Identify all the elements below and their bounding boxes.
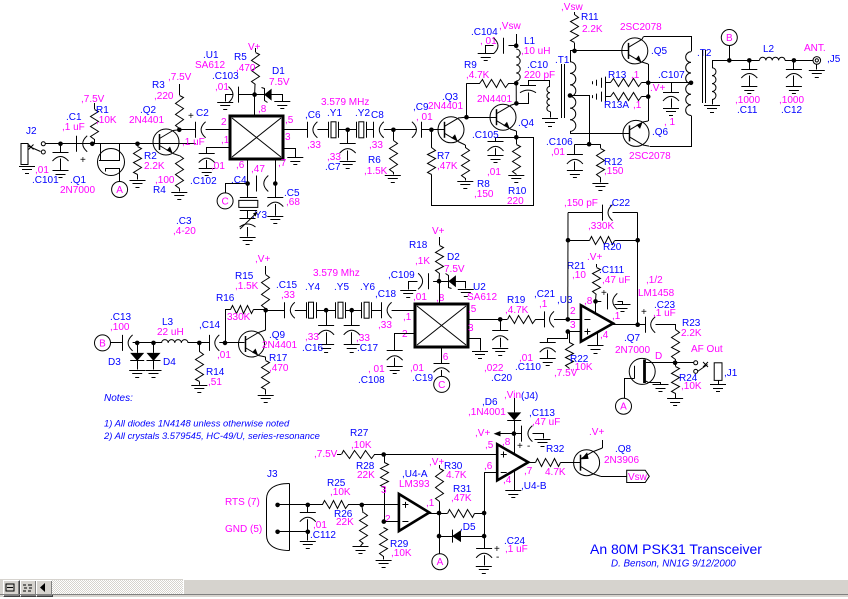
ground (R14) xyxy=(191,385,207,387)
capacitor C24 xyxy=(476,536,492,565)
op-amp U4-B LM393 xyxy=(497,444,528,480)
node dot (7.5V node D1) xyxy=(252,92,257,97)
wire (output rail) xyxy=(729,60,759,62)
wire (V+ rail to T2 tap) xyxy=(648,82,691,84)
svg-text:,1 uF: ,1 uF xyxy=(505,544,528,555)
resistor R26 xyxy=(360,505,368,546)
svg-text:,10K: ,10K xyxy=(391,548,412,559)
svg-text:+: + xyxy=(517,441,523,452)
wire (U4B pin6 leg) xyxy=(484,473,486,536)
svg-text:,1K: ,1K xyxy=(415,256,430,267)
capacitor C16 xyxy=(318,310,334,344)
svg-text:,8: ,8 xyxy=(258,104,267,115)
wire (J2 to C1) xyxy=(45,143,76,145)
svg-text:,7.5V: ,7.5V xyxy=(81,94,105,105)
svg-text:,8: ,8 xyxy=(502,437,511,448)
svg-text:R6: R6 xyxy=(368,155,381,166)
V+ arrow xyxy=(494,431,514,436)
wire (Vsw stub) xyxy=(516,34,518,46)
wire (R19-C21) xyxy=(535,319,544,321)
inductor L3 xyxy=(162,340,188,343)
resistor R31 xyxy=(448,510,485,518)
resistor R21 xyxy=(593,264,601,301)
transformer T2 primary xyxy=(686,52,691,116)
ground (R26) xyxy=(353,546,369,548)
svg-text:C: C xyxy=(438,380,445,391)
svg-text:,C22: ,C22 xyxy=(609,198,631,209)
node dot (D5 left) xyxy=(437,534,442,539)
ground (T1 primary) xyxy=(542,118,558,120)
wire (C9 to Q3) xyxy=(422,129,444,131)
scrollbar track xyxy=(52,580,183,595)
inductor L2 xyxy=(760,57,786,60)
mixer U2 SA612 xyxy=(415,304,468,347)
ground (R4) xyxy=(171,192,187,194)
wire (RTS line) xyxy=(278,504,323,506)
svg-text:,47 uF: ,47 uF xyxy=(532,417,560,428)
svg-text:3: 3 xyxy=(285,132,291,143)
zener diode D2 7.5V xyxy=(439,274,466,289)
svg-text:.C20: .C20 xyxy=(491,373,513,384)
wire (R13 left tie) xyxy=(605,77,607,103)
ground (C20) xyxy=(492,348,508,350)
ground (R2) xyxy=(130,180,146,182)
svg-text:2N7000: 2N7000 xyxy=(60,185,95,196)
svg-text:.Y1: .Y1 xyxy=(327,108,342,119)
svg-text:,V+: ,V+ xyxy=(475,428,490,439)
capacitor C8 xyxy=(373,122,375,138)
capacitor C21 xyxy=(544,311,546,327)
transformer T1 primary xyxy=(547,86,551,117)
svg-text:2N7000: 2N7000 xyxy=(615,345,650,356)
resistor R19 xyxy=(508,316,536,324)
wire (emitter rail mid) xyxy=(648,83,650,121)
svg-text:,33: ,33 xyxy=(305,332,319,343)
ground (C3) xyxy=(240,237,256,239)
wire (feedback loop R7-Q4e) xyxy=(432,138,534,206)
svg-text:An 80M PSK31 Transceiver: An 80M PSK31 Transceiver xyxy=(590,541,762,557)
node dot (R27/R28) xyxy=(381,452,386,457)
transformer T2 core xyxy=(703,50,706,103)
wire (feedback top left) xyxy=(568,212,603,214)
svg-text:,01: ,01 xyxy=(217,350,231,361)
wire (C15 to Y4) xyxy=(295,310,306,312)
svg-text:22K: 22K xyxy=(336,517,354,528)
svg-text:.C4: .C4 xyxy=(231,175,247,186)
svg-text:.C110: .C110 xyxy=(515,362,541,373)
svg-text:,6: ,6 xyxy=(484,461,493,472)
ground (R10) xyxy=(508,175,524,177)
svg-text:D: D xyxy=(655,351,662,362)
wire (U2 pin5 out) xyxy=(467,319,507,321)
svg-text:A: A xyxy=(620,402,627,413)
transformer T1 secondary xyxy=(570,62,576,132)
resistor R13 xyxy=(606,79,649,87)
crystal Y3 xyxy=(239,184,258,219)
capacitor C11 xyxy=(741,60,757,86)
wire (C8-C9) xyxy=(384,129,417,131)
transistor Q2 2N4401 xyxy=(153,129,179,156)
capacitor C108 xyxy=(387,334,416,367)
svg-text:,Vin: ,Vin xyxy=(504,390,521,401)
mixer U1 SA612 xyxy=(230,116,283,159)
svg-text:,C18: ,C18 xyxy=(375,289,397,300)
crystal Y6 xyxy=(361,302,363,318)
pin 7 stub (U1) xyxy=(275,159,277,184)
svg-text:.C101: .C101 xyxy=(32,175,59,186)
wire (U4B out) xyxy=(528,462,535,464)
wire (U3 out) xyxy=(613,324,645,326)
svg-text:.Q6: .Q6 xyxy=(652,127,669,138)
ground (C103) xyxy=(217,102,233,104)
node dot (Q9 coll) xyxy=(263,308,268,313)
svg-text:LM1458: LM1458 xyxy=(638,288,675,299)
svg-text:.C12: .C12 xyxy=(781,105,803,116)
node dot (U4A pin2) xyxy=(382,519,387,524)
resistor R29 xyxy=(380,528,388,560)
pin 4 stub and ground (U3) xyxy=(588,333,604,354)
svg-text:.C17: .C17 xyxy=(357,343,379,354)
ground (C16) xyxy=(318,344,334,346)
ground (R13 sideways) xyxy=(601,78,603,88)
transistor Q6 2SC2078 xyxy=(623,120,649,146)
transformer T2 secondary xyxy=(712,68,716,100)
svg-text:.V+: .V+ xyxy=(589,427,604,438)
svg-text:,J1: ,J1 xyxy=(724,368,738,379)
crystal Y4 xyxy=(306,302,308,318)
svg-text:,1 uF: ,1 uF xyxy=(653,308,676,319)
ground (Q7 source) xyxy=(653,384,669,386)
ground (C17) xyxy=(344,344,360,346)
svg-text:,1: ,1 xyxy=(633,100,642,111)
svg-text:2: 2 xyxy=(221,117,227,128)
resistor R17 xyxy=(262,357,270,395)
node dot (Q2 collector) xyxy=(177,128,182,133)
capacitor C12 xyxy=(786,60,802,86)
svg-text:2SC2078: 2SC2078 xyxy=(629,151,671,162)
svg-text:.C105: .C105 xyxy=(472,130,499,141)
svg-text:,470: ,470 xyxy=(236,63,256,74)
svg-text:4.7K: 4.7K xyxy=(545,467,566,478)
svg-text:ANT.: ANT. xyxy=(804,43,826,54)
wire (L2 to J5) xyxy=(785,60,813,62)
wire (C103 to dot) xyxy=(243,94,255,96)
resistor R23 xyxy=(672,330,680,363)
svg-text:,1/2: ,1/2 xyxy=(646,275,663,286)
node dot (C112 top) xyxy=(306,503,311,508)
svg-text:,7: ,7 xyxy=(524,466,533,477)
node dot (Q9 base) xyxy=(223,341,228,346)
capacitor C15 xyxy=(284,302,286,318)
button: page view xyxy=(3,580,20,597)
svg-text:R4: R4 xyxy=(153,185,166,196)
svg-text:A: A xyxy=(116,185,123,196)
svg-text:2N4401: 2N4401 xyxy=(262,340,297,351)
net tag Vsw xyxy=(627,470,650,483)
svg-text:2: 2 xyxy=(402,329,408,340)
capacitor C4 xyxy=(256,176,258,192)
svg-text:R27: R27 xyxy=(350,428,369,439)
node dot (C112 bottom) xyxy=(306,530,311,535)
svg-text:,1 uF: ,1 uF xyxy=(182,137,205,148)
svg-text:,47: ,47 xyxy=(251,164,265,175)
wire (GND line) xyxy=(278,531,308,533)
svg-text:,6: ,6 xyxy=(236,160,245,171)
svg-text:.Y2: .Y2 xyxy=(355,108,370,119)
ground (C113) xyxy=(535,439,551,441)
svg-text:2.2K: 2.2K xyxy=(582,24,603,35)
resistor R15 xyxy=(262,266,270,310)
transistor Q9 2N4401 xyxy=(239,310,266,357)
capacitor C101 xyxy=(53,144,69,170)
wire (C21 to U3-) xyxy=(554,319,581,321)
wire (Q5 coll to T2) xyxy=(644,37,692,52)
svg-text:,33: ,33 xyxy=(307,140,321,151)
svg-text:D. Benson, NN1G 9/12/2000: D. Benson, NN1G 9/12/2000 xyxy=(611,559,736,570)
ground (R24) xyxy=(667,398,683,400)
svg-text:,10 uH: ,10 uH xyxy=(521,46,550,57)
svg-text:,C14: ,C14 xyxy=(199,320,221,331)
svg-text:,Vsw: ,Vsw xyxy=(499,21,521,32)
svg-text:+: + xyxy=(188,111,194,122)
resistor R30 xyxy=(436,465,444,513)
capacitor C2 xyxy=(195,122,197,138)
svg-text:,150: ,150 xyxy=(604,166,624,177)
svg-text:,51: ,51 xyxy=(208,377,222,388)
ground (C7) xyxy=(340,161,356,163)
capacitor C14 xyxy=(209,335,211,351)
ground (C106) xyxy=(567,170,583,172)
node dot (C17) xyxy=(349,308,354,313)
ground (R17) xyxy=(258,395,274,397)
resistor R14 xyxy=(196,343,204,385)
pin 4 stub and ground (U4B) xyxy=(505,471,521,498)
svg-text:SA612: SA612 xyxy=(467,292,497,303)
wire (U1 pin5 out) xyxy=(283,129,307,131)
capacitor C6 xyxy=(307,122,309,138)
svg-text:2: 2 xyxy=(385,514,391,525)
capacitor C9 xyxy=(421,122,423,138)
wire (Y4-Y5) xyxy=(316,310,336,312)
resistor R18 xyxy=(436,237,444,281)
button: list view xyxy=(20,580,37,597)
capacitor C104 xyxy=(486,38,517,54)
svg-text:,V+: ,V+ xyxy=(255,254,270,265)
resistor R24 xyxy=(672,363,680,398)
svg-text:,4.7K: ,4.7K xyxy=(466,70,490,81)
svg-text:7.5V: 7.5V xyxy=(269,77,290,88)
svg-text:,1: ,1 xyxy=(221,135,230,146)
ground (D3) xyxy=(129,370,145,372)
svg-text:.V+: .V+ xyxy=(587,252,602,263)
ground (C11) xyxy=(741,86,757,88)
node dot (U4A out) xyxy=(437,511,442,516)
svg-text:+: + xyxy=(601,288,607,299)
wire (to Q5 base) xyxy=(575,50,629,52)
svg-text:2SC2078: 2SC2078 xyxy=(620,22,662,33)
svg-text:,01: ,01 xyxy=(215,82,229,93)
node dot (B rail) xyxy=(727,58,732,63)
capacitor C106 xyxy=(567,144,589,170)
svg-text:R13: R13 xyxy=(608,70,627,81)
resistor R32 xyxy=(536,459,581,467)
ground (J3 GND) xyxy=(300,532,316,549)
zener diode D1 7.5V xyxy=(255,88,283,103)
wire (Vin stub) xyxy=(514,398,516,412)
svg-text:,5: ,5 xyxy=(485,440,494,451)
capacitor C109 xyxy=(409,273,440,289)
svg-text:22 uH: 22 uH xyxy=(157,327,184,338)
transistor Q4 2N4401 xyxy=(490,103,517,137)
diode D5 xyxy=(439,530,484,543)
wire (T1 sec top to R11) xyxy=(571,51,575,62)
svg-text:LM393: LM393 xyxy=(399,479,430,490)
svg-text:R5: R5 xyxy=(234,52,247,63)
node dot (R26 top) xyxy=(360,503,365,508)
svg-text:4.7K: 4.7K xyxy=(446,470,467,481)
ground (C104) xyxy=(478,53,494,55)
resistor R28 xyxy=(381,455,389,522)
wire (Q2 coll to C2) xyxy=(179,129,195,131)
svg-text:,1: ,1 xyxy=(426,498,435,509)
wire (feedback left leg) xyxy=(567,213,569,320)
node dot (Vsw/L1) xyxy=(514,43,519,48)
node dot (D4) xyxy=(151,341,156,346)
svg-text:7.5V: 7.5V xyxy=(444,264,465,275)
node dot (T2 tap) xyxy=(689,81,694,86)
node dot (L1 bottom/R9) xyxy=(514,81,519,86)
transistor Q1 2N7000 xyxy=(98,144,125,182)
resistor R7 xyxy=(428,130,436,175)
resistor R12 xyxy=(589,144,604,182)
svg-text:,U3: ,U3 xyxy=(557,295,573,306)
node dot (C12) xyxy=(792,58,797,63)
connector J2 jack xyxy=(21,142,45,165)
svg-text:,10K: ,10K xyxy=(351,440,372,451)
svg-text:J2: J2 xyxy=(26,126,37,137)
svg-text:,1.5K: ,1.5K xyxy=(235,281,259,292)
svg-text:,01: ,01 xyxy=(487,167,501,178)
node dot (AF node) xyxy=(673,361,678,366)
transistor Q7 2N7000 xyxy=(625,358,661,398)
capacitor C22 xyxy=(602,205,604,221)
svg-text:V+: V+ xyxy=(432,226,445,237)
crystal Y5 xyxy=(335,302,337,318)
svg-text:,7.5V: ,7.5V xyxy=(314,449,338,460)
svg-text:,47K: ,47K xyxy=(451,493,472,504)
svg-text:D2: D2 xyxy=(447,252,460,263)
crystal Y1 xyxy=(328,122,330,138)
svg-text:RTS (7): RTS (7) xyxy=(225,497,260,508)
svg-text:.C11: .C11 xyxy=(737,105,758,116)
svg-text:,8: ,8 xyxy=(584,296,593,307)
wire (feedback right leg) xyxy=(637,213,639,325)
svg-text:22K: 22K xyxy=(357,470,375,481)
svg-text:,220: ,220 xyxy=(154,91,174,102)
wire (R9 left leg) xyxy=(466,83,468,117)
ground (C105) xyxy=(488,155,504,157)
node dot (Q4 coll) xyxy=(514,101,519,106)
capacitor C110 xyxy=(540,332,568,359)
wire (T2 sec bottom) xyxy=(712,100,714,105)
transformer T1 core xyxy=(562,64,565,118)
node dot (R13 right) xyxy=(646,81,651,86)
connector J5 ANT xyxy=(813,57,821,70)
svg-text:R3: R3 xyxy=(152,80,165,91)
svg-text:,33: ,33 xyxy=(369,140,383,151)
svg-text:.C108: .C108 xyxy=(358,375,385,386)
svg-text:.C107: .C107 xyxy=(658,70,685,81)
ground (C5) xyxy=(267,216,283,218)
ground (C24) xyxy=(476,566,492,568)
diode D4 xyxy=(147,343,161,370)
svg-text:2N4401: 2N4401 xyxy=(477,94,512,105)
svg-text:.C19: .C19 xyxy=(412,373,434,384)
svg-text:.Q5: .Q5 xyxy=(651,46,668,57)
node dot (V+ node) xyxy=(512,431,517,436)
svg-text:, 01: , 01 xyxy=(416,112,433,123)
pin 8 stub (U3) xyxy=(595,301,597,313)
wire (pin2 stub) xyxy=(384,521,399,523)
svg-text:3.579 Mhz: 3.579 Mhz xyxy=(313,268,360,279)
node dot (R7 top) xyxy=(429,128,434,133)
pin 8 stub (U4B) xyxy=(514,434,516,455)
svg-text:D3: D3 xyxy=(108,357,121,368)
node dot (T1 tap) xyxy=(568,93,573,98)
svg-text:, 01: , 01 xyxy=(368,364,385,375)
node dot (R14) xyxy=(197,341,202,346)
ground (C110) xyxy=(540,358,556,360)
resistor R13A xyxy=(606,93,649,101)
node C (BFO link) xyxy=(434,376,450,392)
wire (Y2-C8) xyxy=(366,129,374,131)
svg-text:SA612: SA612 xyxy=(195,60,225,71)
resistor R20 xyxy=(568,237,638,245)
node dot (U2 7.5V node) xyxy=(437,279,442,284)
wire (Y1-Y2) xyxy=(339,129,357,131)
svg-text:C8: C8 xyxy=(371,110,384,121)
resistor R4 xyxy=(176,156,184,192)
svg-text:,U4-B: ,U4-B xyxy=(521,481,547,492)
resistor R11 xyxy=(571,12,579,51)
connector J1 AF jack xyxy=(675,361,722,384)
svg-text:,1: ,1 xyxy=(539,299,548,310)
svg-text:-: - xyxy=(496,552,499,563)
node dot (Q4 emitter) xyxy=(514,135,519,140)
wire (R27 to U4B+) xyxy=(384,454,498,456)
resistor R5 xyxy=(252,48,260,95)
svg-text:.C16: .C16 xyxy=(302,343,324,354)
svg-text:.C112: .C112 xyxy=(310,530,336,541)
svg-text:.Y4: .Y4 xyxy=(305,282,320,293)
capacitor C1 xyxy=(76,136,78,152)
svg-text:,47K: ,47K xyxy=(437,161,458,172)
svg-text:.Q8: .Q8 xyxy=(615,444,632,455)
wire (C14 to Q9 base) xyxy=(219,342,244,344)
capacitor C13 xyxy=(122,335,124,351)
svg-text:,1N4001: ,1N4001 xyxy=(468,407,506,418)
connector J3 xyxy=(267,484,290,551)
svg-text:2N4401: 2N4401 xyxy=(428,101,463,112)
capacitor C7 xyxy=(340,130,356,161)
svg-text:,33: ,33 xyxy=(281,290,295,301)
wire (C13 to L3) xyxy=(133,342,162,344)
svg-text:.T1: .T1 xyxy=(555,55,570,66)
wire (U4A out) xyxy=(429,513,447,515)
resistor R16 xyxy=(225,306,266,343)
capacitor C111 xyxy=(596,293,623,309)
svg-text:J3: J3 xyxy=(267,469,278,480)
